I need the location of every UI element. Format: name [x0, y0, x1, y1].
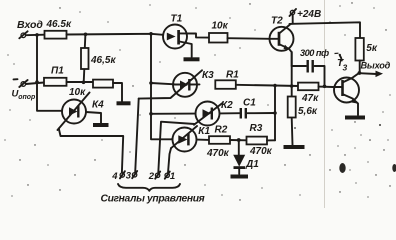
- output arrow Выход: [359, 71, 383, 78]
- wire base rail of Т3: [275, 85, 298, 88]
- wire bus corner to К1: [171, 138, 173, 141]
- svg-text:К2: К2: [221, 100, 233, 111]
- wire 10к to Т2 base: [228, 37, 270, 40]
- input terminal Вход: [19, 31, 27, 38]
- ground 5,6к: [284, 145, 305, 149]
- switch К2: [194, 102, 240, 126]
- resistor R3: [247, 137, 268, 145]
- wire К1 control to terminal 1: [168, 148, 171, 173]
- wire summing vertical: [274, 86, 276, 141]
- resistor 46,5к divider: [81, 34, 89, 82]
- node input/shunt junction: [35, 33, 39, 37]
- ground divider: [117, 101, 131, 105]
- wire to divider ground: [113, 83, 122, 102]
- svg-text:Выход: Выход: [361, 61, 391, 71]
- terminal Uопор: [14, 79, 28, 87]
- svg-text:470к: 470к: [249, 146, 273, 157]
- svg-text:R1: R1: [226, 70, 239, 81]
- wire input rail to T1: [67, 34, 164, 35]
- svg-text:300 пф: 300 пф: [300, 48, 329, 58]
- wire К2 control to terminal 2: [158, 122, 194, 173]
- svg-text:5к: 5к: [366, 43, 378, 54]
- svg-text:46,5к: 46,5к: [90, 55, 116, 66]
- control terminal 2: [155, 172, 160, 179]
- svg-text:3: 3: [343, 63, 348, 73]
- svg-text:R3: R3: [250, 123, 263, 134]
- wire shunt vertical to К4: [37, 35, 62, 111]
- svg-text:3: 3: [126, 170, 132, 181]
- svg-text:46.5к: 46.5к: [46, 19, 72, 30]
- switch К3: [139, 70, 202, 98]
- wire bus from Т1 node down: [151, 34, 172, 140]
- wire bus to К2: [151, 113, 196, 115]
- svg-text:Т2: Т2: [271, 16, 283, 27]
- resistor 47к: [298, 83, 319, 91]
- transistor Т3: [333, 73, 359, 115]
- svg-text:Вход: Вход: [17, 19, 43, 31]
- wire К3 control drop to terminal 3: [135, 99, 139, 173]
- diode Д1: [233, 140, 245, 174]
- svg-text:470к: 470к: [206, 148, 230, 159]
- wire bus to К3: [151, 83, 175, 84]
- transistor Т2: [270, 25, 294, 67]
- node Т2 emitter/rail: [290, 84, 294, 88]
- node on Uопор rail: [35, 80, 39, 84]
- power terminal +24В: [290, 9, 297, 24]
- node divider bottom: [82, 81, 86, 85]
- control terminal 3: [132, 171, 137, 178]
- capacitor C1: [241, 108, 275, 119]
- wire К4 control to terminal 4: [59, 129, 123, 173]
- svg-text:2: 2: [148, 171, 155, 182]
- ground T1: [184, 57, 200, 61]
- resistor 46.5к input: [45, 31, 67, 39]
- svg-text:+24В: +24В: [297, 9, 321, 20]
- svg-text:C1: C1: [243, 98, 256, 109]
- svg-text:4: 4: [111, 171, 118, 182]
- transistor T1: [163, 25, 209, 58]
- node bus К3: [149, 81, 153, 85]
- ground Т3: [345, 116, 365, 120]
- svg-text:5,6к: 5,6к: [298, 106, 318, 117]
- node summing C1: [273, 111, 277, 115]
- resistor divider lower: [93, 80, 113, 88]
- wire input rail: [26, 34, 45, 37]
- resistor 5к: [355, 38, 363, 61]
- node summing: [273, 84, 277, 88]
- node divider top: [84, 33, 88, 37]
- control terminal 1: [165, 172, 170, 179]
- node cap drop: [323, 85, 327, 89]
- node bus К2: [149, 112, 153, 116]
- brace control signals: [118, 184, 180, 191]
- node T1 input bus: [149, 32, 153, 36]
- svg-text:1: 1: [170, 171, 175, 182]
- wire Т2 emitter down: [291, 52, 293, 86]
- svg-text:К4: К4: [92, 99, 104, 110]
- svg-text:Сигналы управления: Сигналы управления: [101, 194, 205, 205]
- ground К4: [93, 123, 109, 127]
- wire 47к to Т3 base: [319, 86, 334, 88]
- resistor 5,6к: [288, 86, 296, 145]
- resistor 10к interstage: [209, 33, 228, 43]
- wire R2 to node: [230, 139, 247, 141]
- switch К1: [171, 126, 209, 152]
- wire R3 to summing vertical: [267, 139, 275, 141]
- wire 5к to output node: [359, 61, 361, 74]
- svg-text:П1: П1: [51, 66, 64, 77]
- resistor R1: [215, 80, 236, 89]
- wire Uопор rail: [26, 83, 44, 85]
- svg-text:К3: К3: [202, 70, 214, 81]
- svg-text:Т1: Т1: [171, 14, 183, 25]
- control terminal 4: [120, 171, 125, 178]
- label Т3: [337, 54, 348, 73]
- switch К4: [58, 93, 102, 131]
- svg-text:Д1: Д1: [245, 159, 259, 170]
- capacitor 300пф: [292, 60, 325, 86]
- wire +24В rail: [290, 22, 361, 38]
- svg-text:10к: 10к: [212, 21, 229, 32]
- wire П1 to divider node: [67, 81, 94, 83]
- node output: [358, 71, 362, 75]
- svg-text:опор: опор: [18, 94, 36, 101]
- potentiometer П1: [44, 78, 67, 86]
- label Uопор: [12, 89, 37, 102]
- wire R1 to summing node: [236, 84, 275, 87]
- svg-text:R2: R2: [215, 125, 228, 136]
- resistor R2: [209, 136, 230, 144]
- svg-text:10к: 10к: [69, 87, 86, 98]
- ground Д1: [231, 175, 249, 179]
- node R2 R3 Д1: [237, 138, 241, 142]
- svg-text:47к: 47к: [301, 93, 319, 104]
